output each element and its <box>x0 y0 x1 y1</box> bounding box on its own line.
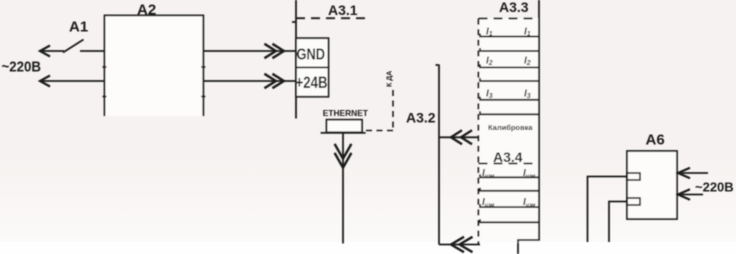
wire pair Iizm 2 <box>480 204 539 222</box>
svg-text:~220В: ~220В <box>2 60 42 76</box>
svg-text:А1: А1 <box>69 19 88 36</box>
svg-text:К ДА: К ДА <box>387 71 394 87</box>
labels Iizm Iizm (row 1) <box>482 168 536 180</box>
A3 column interior <box>479 19 540 243</box>
wire pair I3 <box>480 97 539 115</box>
svg-text:А6: А6 <box>646 132 665 149</box>
arrow ~220V bottom into A6 <box>678 189 703 199</box>
bottom wire with left chevrons <box>439 237 480 252</box>
svg-text:GND: GND <box>297 46 326 63</box>
dashed link to Ethernet <box>366 90 393 131</box>
svg-text:Калибровка: Калибровка <box>488 123 533 132</box>
svg-text:+24В: +24В <box>296 74 328 92</box>
labels I1 I1 <box>486 27 531 39</box>
connector block GND / +24V <box>296 38 329 96</box>
wire with arrow to ~220V (top) <box>40 46 64 57</box>
arrow ~220V top into A6 <box>678 168 708 178</box>
wire pair I2 <box>480 64 539 81</box>
calibration wire with left chevrons <box>439 130 480 144</box>
ethernet connector <box>321 120 366 133</box>
labels Iizm Iizm (row 2) <box>482 197 536 209</box>
wire 2 into A6 <box>609 202 627 243</box>
wire 1 into A6 <box>588 177 628 243</box>
wire A2 to +24V <box>203 74 296 88</box>
wire pair Iizm 1 <box>480 174 539 191</box>
dashed top edge of A3.3 <box>479 18 540 20</box>
pin ticks on A2 edges <box>103 67 206 97</box>
wire A2 to GND <box>203 44 296 58</box>
dashed top edge of A3.4 <box>479 163 540 165</box>
bus line A3.2 <box>436 65 440 245</box>
bus line left of A3.1 <box>292 0 296 119</box>
svg-text:ETHERNET: ETHERNET <box>323 108 369 118</box>
box A6 <box>627 151 677 219</box>
wire with arrow (bottom) <box>40 76 105 87</box>
dashed left edge of A3.3/A3.4 <box>478 19 480 244</box>
ethernet cable with down chevrons <box>335 133 352 244</box>
svg-text:А3.2: А3.2 <box>406 110 436 126</box>
wire pair I1 <box>480 34 539 52</box>
bottom white band <box>0 242 736 254</box>
connector notch 1 on A6 <box>627 173 640 180</box>
svg-text:А3.1: А3.1 <box>328 2 358 18</box>
svg-text:~220В: ~220В <box>695 180 734 195</box>
dashed top edge of A3.1 <box>296 17 368 19</box>
connector notch 2 on A6 <box>627 198 640 205</box>
labels I3 I3 <box>486 89 531 101</box>
svg-text:А3.3: А3.3 <box>499 0 529 15</box>
box A2 (open bottom) <box>105 15 204 116</box>
switch A1 blade and stub <box>63 40 105 53</box>
right module edge with step <box>518 0 539 254</box>
labels I2 I2 <box>486 55 531 67</box>
